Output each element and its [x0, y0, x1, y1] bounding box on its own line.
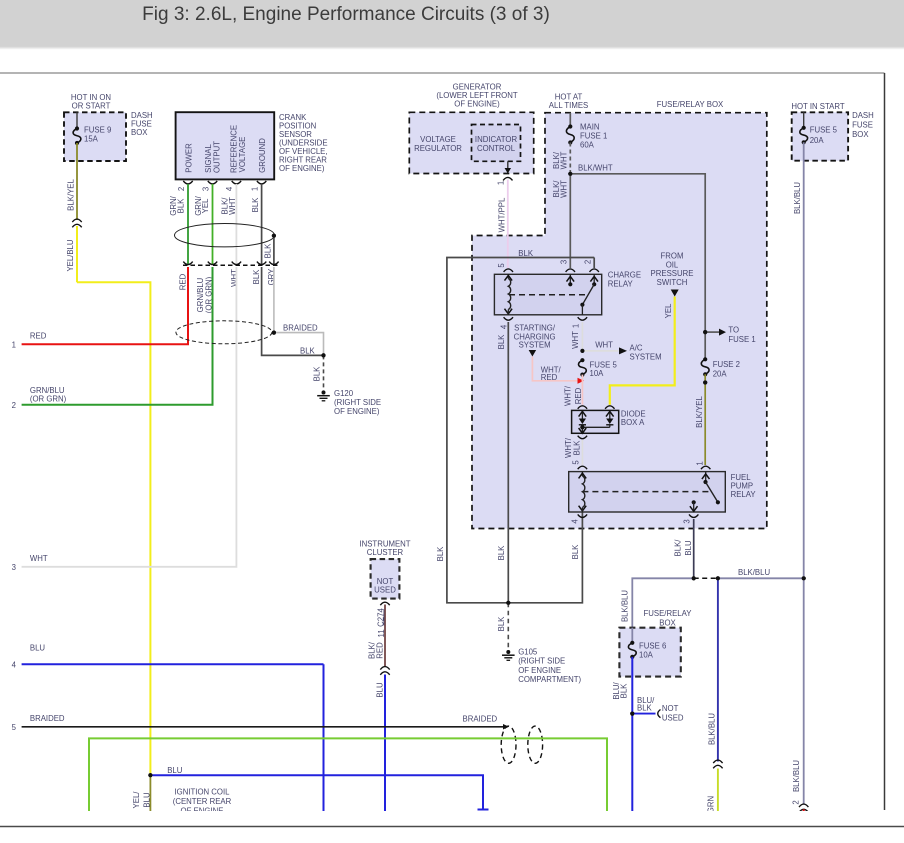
svg-text:60A: 60A	[580, 141, 595, 150]
svg-text:WHT: WHT	[560, 151, 569, 169]
svg-text:SWITCH: SWITCH	[657, 278, 688, 287]
svg-text:YEL: YEL	[664, 303, 673, 318]
svg-text:VOLTAGE: VOLTAGE	[420, 135, 456, 144]
svg-text:FUSE 2: FUSE 2	[713, 360, 740, 369]
svg-text:2: 2	[584, 260, 593, 264]
svg-text:WHT: WHT	[230, 269, 239, 287]
svg-text:BRAIDED: BRAIDED	[30, 714, 65, 723]
svg-text:3: 3	[682, 519, 691, 523]
svg-text:RED: RED	[178, 273, 187, 290]
svg-text:OF ENGINE): OF ENGINE)	[454, 100, 500, 109]
svg-text:BOX A: BOX A	[621, 418, 645, 427]
svg-text:WHT: WHT	[30, 554, 48, 563]
svg-text:BLK/BLU: BLK/BLU	[793, 182, 802, 214]
svg-text:FUSE 9: FUSE 9	[84, 126, 111, 135]
svg-text:VOLTAGE: VOLTAGE	[238, 137, 247, 173]
svg-text:USED: USED	[662, 713, 684, 722]
svg-text:G105: G105	[518, 648, 538, 657]
svg-text:WHT/: WHT/	[564, 385, 573, 406]
svg-text:BLK: BLK	[573, 440, 582, 456]
svg-text:FUSE 6: FUSE 6	[639, 642, 666, 651]
svg-text:SYSTEM: SYSTEM	[630, 353, 662, 362]
svg-text:BRAIDED: BRAIDED	[283, 324, 318, 333]
svg-text:BOX: BOX	[852, 130, 869, 139]
svg-text:BLK: BLK	[177, 198, 186, 214]
svg-text:BLK: BLK	[497, 616, 506, 632]
svg-text:BLK: BLK	[300, 347, 316, 356]
svg-text:OF ENGINE): OF ENGINE)	[334, 407, 380, 416]
svg-text:Fig 3: 2.6L, Engine Performanc: Fig 3: 2.6L, Engine Performance Circuits…	[142, 4, 550, 25]
svg-text:2: 2	[12, 401, 16, 410]
svg-text:BLK/WHT: BLK/WHT	[578, 164, 613, 173]
svg-text:G120: G120	[334, 389, 354, 398]
svg-text:RELAY: RELAY	[731, 490, 757, 499]
svg-text:BLK/: BLK/	[674, 539, 683, 557]
svg-text:BLU: BLU	[167, 766, 183, 775]
svg-text:BLK: BLK	[263, 243, 272, 259]
svg-text:WHT: WHT	[228, 197, 237, 215]
svg-text:FUSE/RELAY: FUSE/RELAY	[644, 609, 693, 618]
svg-text:BLU: BLU	[143, 792, 152, 808]
svg-text:FROM: FROM	[661, 252, 684, 261]
svg-text:PRESSURE: PRESSURE	[651, 269, 694, 278]
svg-text:BLK: BLK	[313, 366, 322, 382]
svg-text:WHT/PPL: WHT/PPL	[498, 197, 507, 232]
svg-text:MAIN: MAIN	[580, 123, 600, 132]
svg-text:COMPARTMENT): COMPARTMENT)	[518, 675, 581, 684]
svg-text:A/C: A/C	[630, 344, 643, 353]
svg-text:5: 5	[12, 723, 17, 732]
svg-text:BLK/YEL: BLK/YEL	[66, 179, 75, 211]
svg-text:OUTPUT: OUTPUT	[213, 141, 222, 173]
svg-text:4: 4	[499, 324, 508, 329]
svg-text:BLK/BLU: BLK/BLU	[792, 760, 801, 792]
svg-text:RED: RED	[375, 642, 384, 659]
svg-text:YEL/: YEL/	[132, 791, 141, 809]
svg-text:REGULATOR: REGULATOR	[414, 144, 462, 153]
svg-text:20A: 20A	[810, 136, 825, 145]
svg-text:CONTROL: CONTROL	[477, 144, 516, 153]
svg-text:WHT: WHT	[571, 331, 580, 349]
svg-text:GROUND: GROUND	[258, 138, 267, 173]
svg-text:ALL TIMES: ALL TIMES	[549, 101, 588, 110]
svg-text:HOT IN START: HOT IN START	[791, 102, 845, 111]
svg-text:1: 1	[572, 324, 581, 328]
svg-text:FUSE 1: FUSE 1	[728, 335, 755, 344]
svg-text:BOX: BOX	[131, 128, 148, 137]
svg-text:FUSE 5: FUSE 5	[810, 126, 838, 135]
svg-text:1: 1	[12, 340, 16, 349]
svg-text:2: 2	[177, 187, 186, 191]
svg-text:1: 1	[695, 461, 704, 465]
svg-text:5: 5	[497, 263, 506, 268]
svg-text:BRAIDED: BRAIDED	[463, 715, 498, 724]
svg-text:BOX: BOX	[659, 618, 676, 627]
svg-text:IGNITION COIL: IGNITION COIL	[174, 788, 230, 797]
svg-text:NOT: NOT	[662, 704, 679, 713]
svg-text:11: 11	[377, 629, 386, 637]
svg-text:OIL: OIL	[666, 260, 679, 269]
svg-text:BLU: BLU	[30, 644, 46, 653]
svg-text:20A: 20A	[713, 369, 728, 378]
svg-text:OF ENGINE: OF ENGINE	[518, 666, 561, 675]
svg-text:3: 3	[12, 563, 16, 572]
svg-text:BLK: BLK	[436, 546, 445, 562]
svg-text:15A: 15A	[84, 135, 99, 144]
svg-text:BLK: BLK	[252, 269, 261, 285]
svg-text:BLK/BLU: BLK/BLU	[707, 713, 716, 745]
svg-text:BLU: BLU	[684, 540, 693, 556]
svg-text:BLK: BLK	[571, 544, 580, 560]
svg-text:FUSE 5: FUSE 5	[590, 360, 618, 369]
svg-text:10A: 10A	[590, 369, 605, 378]
svg-text:BLK: BLK	[518, 249, 534, 258]
svg-text:TO: TO	[728, 325, 739, 334]
svg-text:5: 5	[571, 460, 580, 465]
svg-text:OF ENGINE): OF ENGINE)	[279, 164, 325, 173]
svg-text:DASH: DASH	[852, 111, 874, 120]
svg-text:RED: RED	[574, 387, 583, 404]
svg-text:(CENTER REAR: (CENTER REAR	[173, 797, 232, 806]
svg-text:BLK: BLK	[637, 704, 653, 713]
svg-text:STARTING/: STARTING/	[514, 323, 556, 332]
svg-text:RED: RED	[30, 332, 47, 341]
svg-text:BLK/BLU: BLK/BLU	[621, 590, 630, 622]
svg-text:BLK/YEL: BLK/YEL	[695, 396, 704, 428]
svg-text:WHT: WHT	[560, 180, 569, 198]
svg-text:(RIGHT SIDE: (RIGHT SIDE	[518, 657, 565, 666]
svg-text:USED: USED	[374, 585, 396, 594]
svg-text:3: 3	[560, 260, 569, 264]
svg-text:2: 2	[791, 800, 800, 804]
svg-text:BLK: BLK	[251, 197, 260, 213]
svg-text:CHARGE: CHARGE	[608, 271, 641, 280]
svg-text:BLK/BLU: BLK/BLU	[738, 568, 770, 577]
svg-text:(OR GRN): (OR GRN)	[30, 395, 67, 404]
svg-text:3: 3	[201, 187, 210, 191]
svg-text:FUSE 1: FUSE 1	[580, 132, 607, 141]
svg-text:WHT: WHT	[595, 341, 613, 350]
svg-text:YEL/BLU: YEL/BLU	[66, 239, 75, 271]
svg-text:10A: 10A	[639, 651, 654, 660]
svg-text:4: 4	[12, 660, 17, 669]
svg-text:RED: RED	[541, 373, 558, 382]
svg-text:4: 4	[571, 519, 580, 524]
svg-text:FUSE/RELAY BOX: FUSE/RELAY BOX	[657, 100, 724, 109]
svg-text:RELAY: RELAY	[608, 280, 634, 289]
svg-text:BLK: BLK	[497, 545, 506, 561]
svg-text:CLUSTER: CLUSTER	[367, 548, 404, 557]
svg-text:BLK: BLK	[497, 334, 506, 350]
svg-text:BLK: BLK	[619, 683, 628, 699]
svg-text:FUSE: FUSE	[852, 121, 873, 130]
svg-text:BLU: BLU	[375, 682, 384, 698]
svg-text:YEL: YEL	[201, 198, 210, 213]
svg-text:OR START: OR START	[72, 102, 111, 111]
svg-text:4: 4	[225, 186, 234, 191]
svg-text:INDICATOR: INDICATOR	[475, 135, 518, 144]
svg-text:(RIGHT SIDE: (RIGHT SIDE	[334, 398, 381, 407]
svg-text:SYSTEM: SYSTEM	[519, 341, 551, 350]
svg-text:POWER: POWER	[185, 143, 194, 173]
svg-text:1: 1	[250, 187, 259, 191]
svg-text:1: 1	[497, 181, 506, 185]
